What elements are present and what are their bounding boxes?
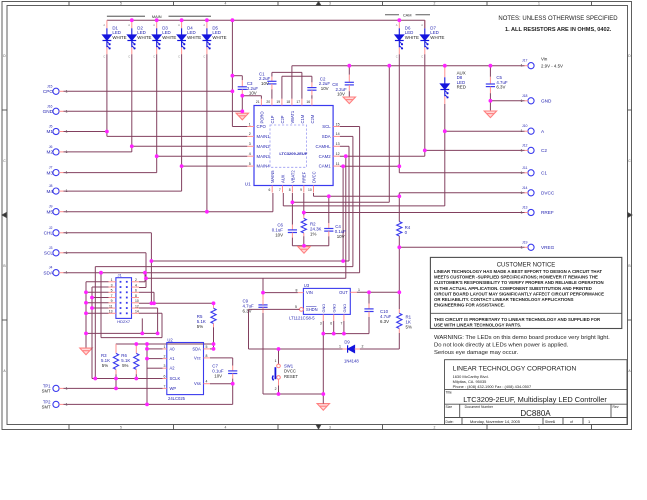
svg-text:M1: M1 [46, 129, 53, 134]
svg-text:M3: M3 [46, 170, 53, 175]
svg-text:C: C [396, 55, 398, 59]
svg-text:J7: J7 [49, 166, 53, 170]
test point TP2 [53, 401, 59, 407]
ground (C3/J16) [236, 113, 248, 120]
wire SCL riser [340, 126, 360, 128]
svg-text:8: 8 [206, 354, 208, 358]
capacitor C10 [368, 292, 370, 303]
pin 18 VBAT1 U1 [291, 99, 293, 106]
svg-text:8: 8 [135, 294, 137, 298]
ground (C8) [343, 97, 355, 104]
connector J9 M5 [53, 209, 59, 215]
svg-text:10V: 10V [321, 86, 329, 91]
svg-text:IN THE ACTUAL APPLICATION. COM: IN THE ACTUAL APPLICATION. COMPONENT SUB… [434, 286, 592, 291]
svg-text:AUX: AUX [280, 174, 285, 183]
svg-text:10: 10 [135, 299, 139, 303]
connector J17 Vin [528, 63, 534, 69]
svg-text:SDA: SDA [192, 346, 201, 351]
svg-text:D: D [628, 54, 631, 58]
svg-text:4: 4 [249, 152, 251, 156]
svg-text:A: A [153, 23, 155, 27]
svg-text:17: 17 [296, 100, 300, 104]
EEPROM U2 24LC025 [167, 343, 204, 395]
svg-text:WHITE: WHITE [405, 35, 419, 40]
svg-text:J11: J11 [522, 166, 527, 170]
svg-text:6.3V: 6.3V [380, 319, 389, 324]
svg-text:C: C [3, 159, 6, 163]
svg-text:J2: J2 [49, 226, 53, 230]
svg-text:1: 1 [339, 345, 341, 349]
svg-text:C2: C2 [541, 148, 547, 153]
svg-text:1: 1 [358, 288, 360, 292]
svg-text:A2: A2 [170, 366, 176, 371]
svg-text:M2: M2 [46, 150, 53, 155]
svg-text:THIS CIRCUIT IS PROPRIETARY TO: THIS CIRCUIT IS PROPRIETARY TO LINEAR TE… [434, 317, 601, 322]
pin 2 J1 [132, 281, 140, 283]
wire J19 VREG [399, 246, 524, 248]
junction dots [130, 18, 134, 22]
connector J6 M2 [53, 149, 59, 155]
svg-text:CIRCUIT BOARD LAYOUT MAY SIGNI: CIRCUIT BOARD LAYOUT MAY SIGNIFICANTLY A… [434, 291, 604, 296]
svg-text:J4: J4 [49, 266, 53, 270]
connector J12 C2 [528, 147, 534, 153]
resistor R1 [398, 292, 400, 309]
frame centerline markers [628, 213, 633, 218]
svg-text:C1: C1 [541, 171, 547, 176]
title block [445, 360, 628, 425]
svg-text:A: A [541, 129, 545, 134]
svg-text:19: 19 [276, 100, 280, 104]
wire J1 pin4 [139, 287, 146, 289]
svg-text:J3: J3 [49, 246, 53, 250]
svg-text:LT1121CS8-5: LT1121CS8-5 [289, 315, 315, 320]
svg-text:10V: 10V [249, 91, 257, 96]
wire pullup rail [116, 343, 214, 345]
svg-text:Vin: Vin [541, 56, 548, 61]
svg-text:1: 1 [111, 278, 113, 282]
pin 12 J1 [132, 307, 140, 309]
wire SDA riser [340, 135, 353, 137]
svg-text:A0: A0 [170, 346, 176, 351]
svg-text:2: 2 [249, 132, 251, 136]
svg-text:1: 1 [588, 419, 590, 424]
capacitor C7 [210, 357, 233, 359]
svg-text:CAM2: CAM2 [319, 154, 332, 159]
svg-text:B: B [628, 264, 631, 268]
wire CPO net [64, 90, 233, 92]
wire SHDN net [249, 308, 300, 310]
svg-text:SCL: SCL [322, 124, 331, 129]
connector J11 C1 [528, 170, 534, 176]
wire J1 pin6 [139, 291, 154, 293]
svg-text:5%: 5% [197, 324, 203, 329]
pin 20 C1P U1 [271, 99, 273, 106]
resistor R6 [135, 344, 137, 353]
wire U3 gnd rail [323, 333, 369, 335]
svg-text:MAIN: MAIN [152, 14, 162, 19]
wire CAM1 to J11/D6 [340, 165, 399, 167]
svg-text:C1P: C1P [270, 115, 275, 123]
svg-text:5: 5 [249, 162, 251, 166]
wire CAMHL riser [340, 145, 349, 147]
svg-text:2: 2 [275, 387, 277, 391]
LED D6 [398, 20, 400, 28]
connector J10 A [528, 128, 534, 134]
svg-text:J17: J17 [522, 59, 528, 63]
pin 6 J1 [132, 291, 140, 293]
svg-text:5%: 5% [122, 363, 128, 368]
svg-text:WARNING: The LEDs on this demo: WARNING: The LEDs on this demo board pro… [434, 335, 610, 341]
svg-text:5: 5 [206, 345, 208, 349]
svg-text:NOTES: UNLESS OTHERWISE SPECIF: NOTES: UNLESS OTHERWISE SPECIFIED [498, 16, 618, 22]
svg-text:C: C [421, 55, 423, 59]
svg-text:U2: U2 [167, 337, 173, 342]
resistor R5 [213, 303, 215, 308]
svg-text:MAIN3: MAIN3 [257, 154, 271, 159]
svg-text:RREF: RREF [302, 171, 307, 183]
svg-text:VBAT1: VBAT1 [290, 110, 295, 123]
svg-text:CAM: CAM [403, 13, 412, 18]
wire J14 DVCC [399, 192, 524, 194]
svg-text:6: 6 [135, 289, 137, 293]
pin 5 MAIN4 U1 [247, 165, 254, 167]
pin 7 WP U2 [163, 387, 167, 389]
svg-text:J12: J12 [522, 143, 528, 147]
wire LED anode bus [107, 19, 425, 21]
wire J1 ground column [86, 281, 109, 283]
wire CHL/CAMHL rail [64, 232, 152, 234]
svg-text:CPO: CPO [257, 124, 267, 129]
wire Vin rail [292, 65, 525, 67]
svg-text:J13: J13 [522, 206, 528, 210]
switch SW1 [278, 349, 280, 364]
svg-text:SCL: SCL [44, 251, 54, 256]
svg-text:10V: 10V [214, 373, 222, 378]
svg-text:10V: 10V [275, 232, 283, 237]
svg-text:5: 5 [120, 2, 122, 6]
ground (R2/C6/C4) [298, 247, 310, 254]
pin 14 SDA U1 [333, 135, 340, 137]
wire M3 to D3/MAIN3 [64, 172, 157, 174]
resistor R2 [303, 193, 305, 215]
capacitor C2 [311, 76, 313, 82]
connector J3 SCL [53, 250, 59, 256]
wire SDA J4 rail [64, 272, 360, 274]
svg-text:Serious eye damage may occur.: Serious eye damage may occur. [434, 350, 519, 356]
svg-text:10V: 10V [337, 92, 345, 97]
svg-text:MAIN2: MAIN2 [257, 144, 271, 149]
svg-text:3: 3 [329, 2, 331, 6]
LED D1 [106, 20, 108, 28]
pin 1 CPO U1 [247, 126, 254, 128]
wire CAM2 to J12/D7 [340, 155, 425, 157]
connector J4 SDA [53, 270, 59, 276]
pin 12 CAM2 U1 [333, 155, 340, 157]
svg-text:9: 9 [300, 188, 302, 192]
svg-text:5%: 5% [406, 325, 412, 330]
svg-text:A: A [203, 23, 205, 27]
wire PORO link [242, 95, 261, 97]
svg-text:A1: A1 [170, 356, 176, 361]
LED D8 (AUX, red) [444, 66, 446, 78]
capacitor C6 [291, 202, 293, 224]
svg-text:Document Number: Document Number [465, 405, 494, 409]
wire OUT line [357, 291, 400, 293]
connector J2 CHL [53, 230, 59, 236]
pin 11 J1 [109, 307, 116, 309]
connector J19 VREG [528, 244, 534, 250]
LED D7 [424, 20, 426, 28]
wire D1 column [106, 54, 108, 131]
pin 13 CAMHL U1 [333, 145, 340, 147]
svg-text:C2M: C2M [310, 114, 315, 123]
capacitor C4 [328, 196, 330, 223]
svg-text:CPO: CPO [43, 89, 54, 94]
svg-text:6: 6 [330, 322, 332, 326]
capacitor C3 [232, 75, 242, 77]
wire TP2 rail [64, 403, 233, 405]
wire D6 column [398, 54, 400, 166]
pin 5 J1 [109, 291, 116, 293]
ground (C9/SW1/U3) [317, 404, 329, 411]
connector J13 RREF [528, 209, 534, 215]
capacitor C5 [489, 66, 491, 77]
svg-text:21: 21 [256, 100, 260, 104]
pin 17 C1M U1 [301, 99, 303, 106]
wire J1 pin10 rail [139, 302, 214, 304]
svg-text:WHITE: WHITE [212, 35, 226, 40]
svg-text:J10: J10 [522, 124, 528, 128]
svg-text:J6: J6 [49, 145, 53, 149]
wire AUX net / D8 column [444, 104, 446, 206]
svg-text:13: 13 [109, 310, 113, 314]
svg-text:11: 11 [336, 162, 340, 166]
svg-text:of: of [570, 420, 573, 424]
pin 10 DVCC U1 [313, 186, 315, 193]
wire J1 odd pins column [92, 286, 109, 288]
svg-text:SMT: SMT [42, 404, 51, 409]
svg-text:J1: J1 [118, 273, 123, 278]
wire D2 column [131, 54, 133, 152]
pin 9 RREF U1 [303, 186, 305, 193]
wire J1 pin2 [139, 281, 145, 283]
svg-text:J19: J19 [522, 240, 528, 244]
svg-text:5: 5 [111, 289, 113, 293]
svg-text:8: 8 [289, 188, 291, 192]
wire riser aux1 [342, 166, 344, 261]
svg-text:13: 13 [336, 142, 340, 146]
svg-text:LINEAR TECHNOLOGY HAS MADE A B: LINEAR TECHNOLOGY HAS MADE A BEST EFFORT… [434, 269, 602, 274]
svg-text:RREF: RREF [541, 210, 554, 215]
wire rail to SDA riser [95, 266, 353, 268]
svg-text:A: A [178, 23, 180, 27]
svg-text:1. ALL RESISTORS ARE IN OHMS,: 1. ALL RESISTORS ARE IN OHMS, 0402. [505, 27, 612, 33]
wire bottom gnd rail [263, 393, 323, 395]
connector J18 GND [528, 98, 534, 104]
pin 1 J1 [109, 281, 116, 283]
pin 5 SDA U2 [204, 348, 211, 350]
pin 3 MAIN2 U1 [247, 145, 254, 147]
svg-text:C1M: C1M [300, 114, 305, 123]
svg-text:4: 4 [225, 2, 227, 6]
pin 8 VBAT2 U1 [291, 186, 293, 193]
pin 8 VIN U3 [298, 292, 304, 294]
svg-text:16: 16 [306, 100, 310, 104]
svg-text:C: C [203, 55, 205, 59]
svg-text:B: B [3, 264, 6, 268]
connector J7 M3 [53, 170, 59, 176]
node CAM [385, 14, 399, 16]
svg-text:3: 3 [329, 425, 331, 429]
svg-text:GND: GND [321, 304, 326, 313]
wire SDA drop to U2 [100, 273, 102, 338]
LED D3 [156, 20, 158, 28]
pin 1 A0 U2 [163, 348, 167, 350]
svg-text:SHDN: SHDN [306, 307, 318, 312]
pin 3 A2 U2 [163, 367, 167, 369]
svg-text:MEETS CUSTOMER -SUPPLIED SPECI: MEETS CUSTOMER -SUPPLIED SPECIFICATIONS;… [434, 274, 598, 279]
svg-text:M4: M4 [46, 189, 53, 194]
wire WP/TP1 rail [64, 387, 163, 389]
pin 7 AUX U1 [282, 186, 284, 193]
svg-text:LTC3209-2EUF, Multidisplay LED: LTC3209-2EUF, Multidisplay LED Controlle… [463, 395, 607, 404]
svg-text:2: 2 [135, 278, 137, 282]
svg-text:U3: U3 [304, 283, 310, 288]
svg-text:J5: J5 [49, 125, 53, 129]
ground (J1) [80, 348, 92, 355]
capacitor C9 [262, 293, 264, 300]
svg-text:Vcc: Vcc [194, 355, 201, 360]
wire C9/VIN drop [262, 278, 264, 292]
svg-text:1%: 1% [310, 232, 316, 237]
svg-text:MAIN5: MAIN5 [270, 170, 275, 183]
svg-text:Title: Title [446, 391, 452, 395]
svg-text:12: 12 [135, 304, 139, 308]
svg-text:A: A [421, 23, 423, 27]
svg-text:Date:: Date: [446, 420, 454, 424]
pin 6 GND U3 [333, 314, 335, 321]
svg-text:CUSTOMER NOTICE: CUSTOMER NOTICE [497, 262, 556, 268]
wire J10 A [445, 130, 525, 132]
svg-text:PORO: PORO [259, 111, 264, 123]
op-amp U1 LTC3209-2EUF [254, 106, 333, 186]
resistor R4 [398, 196, 400, 221]
svg-text:20: 20 [266, 100, 270, 104]
pin 19 C2P U1 [281, 99, 283, 106]
svg-text:GND: GND [342, 304, 347, 313]
svg-text:8: 8 [296, 288, 298, 292]
svg-text:D9: D9 [344, 340, 350, 345]
pin 4 Vss U2 [204, 383, 211, 385]
wire J1 pin12 wrap [139, 307, 158, 309]
svg-text:J9: J9 [49, 205, 53, 209]
pin 8 J1 [132, 297, 140, 299]
svg-text:LTC3209-2EUF: LTC3209-2EUF [279, 151, 307, 156]
svg-text:Rev: Rev [613, 405, 619, 409]
connector J15 CPO [53, 88, 59, 94]
svg-text:SDA: SDA [43, 270, 54, 275]
svg-text:WHITE: WHITE [187, 35, 201, 40]
pin 4 MAIN3 U1 [247, 155, 254, 157]
svg-text:4: 4 [135, 283, 137, 287]
wire VIN line [263, 292, 298, 294]
svg-text:1: 1 [538, 2, 540, 6]
pin 6 SCLK U2 [163, 378, 167, 380]
diode D9 1N4148 [279, 348, 343, 350]
svg-text:14: 14 [135, 310, 139, 314]
svg-text:A: A [128, 23, 130, 27]
svg-text:J8: J8 [49, 184, 53, 188]
wire A0/A1/A2 tie [146, 344, 148, 404]
svg-text:5%: 5% [102, 363, 108, 368]
wire M1 to D1/MAIN1 [64, 131, 107, 133]
svg-text:1: 1 [538, 425, 540, 429]
svg-text:7: 7 [164, 384, 166, 388]
svg-text:2: 2 [164, 355, 166, 359]
svg-text:Phone : (408) 432-1900 Fax :: Phone : (408) 432-1900 Fax : (408) 434-0… [453, 384, 532, 389]
svg-text:SCLK: SCLK [170, 376, 181, 381]
svg-text:1: 1 [553, 419, 555, 424]
wire GND J18 [490, 100, 524, 102]
svg-text:12: 12 [336, 152, 340, 156]
svg-text:CAM1: CAM1 [319, 164, 332, 169]
svg-text:J15: J15 [47, 84, 53, 88]
svg-text:LINEAR TECHNOLOGY CORPORATION: LINEAR TECHNOLOGY CORPORATION [453, 365, 577, 372]
svg-text:3: 3 [249, 142, 251, 146]
svg-text:DC880A: DC880A [520, 409, 551, 418]
pin 13 J1 [109, 312, 116, 314]
svg-text:C: C [628, 159, 631, 163]
wire VBAT2 drop [388, 66, 390, 203]
svg-text:WHITE: WHITE [162, 35, 176, 40]
wire DVCC net [313, 193, 315, 196]
wire J13 RREF [304, 212, 525, 214]
connector J16 GND [53, 108, 59, 114]
pin 9 J1 [109, 302, 116, 304]
pin 7 GND U3 [343, 314, 345, 321]
svg-text:CAMHL: CAMHL [316, 144, 332, 149]
svg-text:M5: M5 [46, 209, 53, 214]
svg-text:OUT: OUT [339, 290, 348, 295]
wire D5 column [206, 54, 208, 211]
svg-text:Monday, November 14, 2005: Monday, November 14, 2005 [470, 419, 520, 424]
svg-text:2: 2 [434, 2, 436, 6]
wire GND J16 [64, 110, 243, 112]
wire M2 to D2/MAIN2 [64, 151, 132, 153]
test point TP1 [53, 385, 59, 391]
pin 15 SCL U1 [333, 126, 340, 128]
svg-text:3: 3 [164, 364, 166, 368]
svg-text:J16: J16 [47, 104, 53, 108]
wire M4 to D4/MAIN4 [64, 190, 182, 192]
svg-text:J18: J18 [522, 94, 528, 98]
svg-text:VREG: VREG [541, 245, 555, 250]
svg-text:5: 5 [120, 425, 122, 429]
pin 16 C2M U1 [311, 99, 313, 106]
svg-text:2: 2 [434, 425, 436, 429]
svg-text:11: 11 [109, 304, 113, 308]
svg-text:7: 7 [111, 294, 113, 298]
customer notice box [430, 257, 621, 328]
pin 11 CAM1 U1 [333, 165, 340, 167]
svg-text:GND: GND [541, 99, 552, 104]
svg-text:HD2X7: HD2X7 [117, 319, 131, 324]
svg-text:MAIN4: MAIN4 [257, 164, 271, 169]
svg-text:A: A [3, 369, 6, 373]
pin 2 MAIN1 U1 [247, 135, 254, 137]
capacitor C1 [271, 72, 273, 76]
svg-text:ENGINEERING FOR ASSISTANCE.: ENGINEERING FOR ASSISTANCE. [434, 303, 505, 308]
